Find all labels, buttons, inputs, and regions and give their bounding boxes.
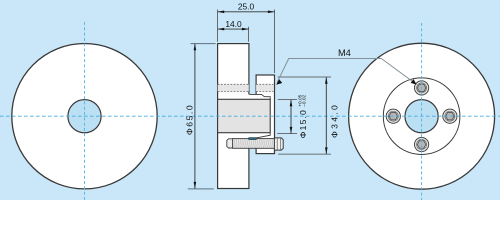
tapped hole hidden band (disc)	[218, 84, 249, 91]
dim 14.0	[218, 19, 249, 31]
dim 14.0 extension line	[248, 27, 250, 42]
dim phi34	[325, 77, 339, 154]
bore section	[218, 99, 271, 132]
vertical centerline left view	[84, 22, 86, 200]
dim phi34 extension lines	[278, 77, 331, 154]
svg-text:Φ65.0: Φ65.0	[184, 104, 194, 135]
svg-text:14.0: 14.0	[225, 19, 242, 29]
clamp screw threaded shank	[233, 139, 275, 149]
M4 leader lines	[277, 59, 416, 85]
section view clamp collar	[256, 75, 274, 154]
dim 25.0	[218, 1, 275, 13]
section view disc plate	[218, 44, 249, 189]
dim 25.0 extension lines	[218, 10, 275, 74]
svg-text:M4: M4	[338, 48, 351, 58]
slit gap dark bar	[249, 138, 257, 140]
dim phi15 extension lines	[277, 100, 297, 134]
svg-text:25.0: 25.0	[238, 1, 255, 11]
M4 tap hole W	[386, 109, 400, 123]
tapped hole hidden band (collar)	[256, 84, 273, 91]
clamp screw tip	[227, 139, 233, 148]
rear view disc (right)	[349, 43, 495, 189]
slit step line top	[249, 94, 270, 99]
horizontal centerline	[0, 115, 500, 117]
M4 tap hole N	[415, 81, 429, 95]
front view disc (left)	[12, 44, 157, 189]
dim phi65 extension lines	[188, 44, 216, 189]
svg-text:Φ15.0: Φ15.0	[298, 109, 308, 138]
front view center bore	[68, 100, 101, 133]
slit step line bottom	[256, 133, 270, 138]
dim phi15	[290, 94, 308, 138]
slit bridge fill	[248, 94, 257, 137]
dim phi65	[184, 44, 196, 189]
M4 tap hole E	[443, 109, 457, 123]
svg-text:–0.02: –0.02	[302, 94, 308, 106]
M4 leader arrow left	[276, 79, 282, 85]
rear view center bore	[405, 100, 438, 133]
svg-text:Φ34.0: Φ34.0	[329, 103, 339, 138]
vertical centerline rear view	[421, 23, 423, 200]
M4 tap hole S	[415, 137, 429, 151]
M4 leader arrow right	[411, 79, 417, 85]
rear view hub boss circle	[383, 78, 460, 155]
clamp screw hex head	[274, 138, 283, 150]
